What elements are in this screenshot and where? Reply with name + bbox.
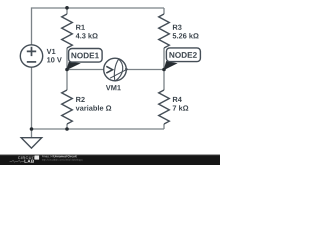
wire: R1 leads bbox=[66, 8, 68, 70]
node NODE2 text bbox=[169, 52, 196, 58]
junction dot: NODE1 bbox=[65, 68, 69, 72]
junction dot: bottom-left (ground) bbox=[30, 127, 34, 131]
wire: bottom rail bbox=[32, 128, 165, 130]
VM1 meter lens bbox=[114, 59, 122, 81]
resistor R2 bbox=[62, 90, 73, 124]
value 7 kΩ bbox=[173, 105, 189, 110]
junction dot: bottom of R2 branch bbox=[65, 127, 69, 131]
label R4 bbox=[173, 97, 182, 102]
wire: R2 leads bbox=[66, 70, 68, 130]
ground symbol bbox=[21, 138, 42, 148]
voltage source V1 bbox=[20, 45, 42, 67]
wire: middle left (NODE1 to VM1) bbox=[67, 69, 104, 71]
VM1 needle bbox=[110, 69, 128, 78]
node NODE1 flag box bbox=[69, 49, 103, 63]
label VM1 bbox=[106, 85, 121, 90]
footer bar bbox=[0, 155, 220, 166]
node NODE1 text bbox=[71, 53, 98, 59]
wire: left rail upper bbox=[31, 7, 33, 45]
junction dot: NODE2 bbox=[162, 68, 166, 72]
footer logo CIRCUIT bbox=[18, 156, 36, 159]
node NODE2 flag tail bbox=[164, 61, 178, 70]
wire: middle right (VM1 to NODE2) bbox=[126, 69, 164, 71]
value 10 V bbox=[47, 57, 62, 62]
node NODE2 flag box bbox=[166, 48, 200, 62]
footer url bbox=[42, 159, 82, 161]
resistor R1 bbox=[62, 14, 73, 48]
footer logo LAB bbox=[25, 160, 35, 163]
footer title bbox=[42, 155, 54, 157]
wire: R4 leads bbox=[163, 70, 165, 130]
footer logo wave bbox=[10, 160, 24, 162]
junction dot: top of R1 branch bbox=[65, 6, 69, 10]
label R1 bbox=[76, 25, 85, 30]
footer logo badge bbox=[35, 156, 40, 160]
wire: ground stub bbox=[31, 129, 33, 138]
wire: top rail bbox=[32, 7, 165, 9]
node NODE1 flag tail bbox=[66, 62, 80, 71]
VM1 polarity mark bbox=[106, 66, 112, 73]
voltmeter VM1 body bbox=[104, 58, 127, 81]
value 4.3 kΩ bbox=[76, 33, 98, 38]
resistor R4 bbox=[159, 90, 170, 124]
wire: left rail lower bbox=[31, 67, 33, 129]
value 5.26 kΩ bbox=[173, 33, 199, 38]
wire: R3 leads bbox=[163, 8, 165, 70]
resistor R3 bbox=[159, 14, 170, 48]
label R2 bbox=[76, 97, 85, 102]
value variable Ω bbox=[76, 105, 112, 110]
label V1 bbox=[47, 49, 56, 54]
label R3 bbox=[173, 25, 182, 30]
